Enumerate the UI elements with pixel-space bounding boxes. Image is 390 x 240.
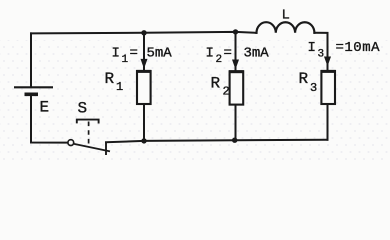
svg-text:3: 3 — [318, 49, 325, 61]
wire R1 branch shaft from top node down to resistor — [143, 33, 145, 71]
svg-text:R: R — [211, 75, 221, 93]
svg-text:=: = — [130, 46, 138, 62]
current arrow I1 (down) — [141, 59, 148, 69]
svg-text:I: I — [112, 46, 120, 62]
node dot top of R2 branch — [233, 29, 238, 34]
svg-text:I: I — [308, 40, 316, 56]
svg-text:1: 1 — [116, 80, 123, 94]
node dot top of R1 branch — [141, 30, 146, 35]
svg-text:I: I — [206, 46, 214, 62]
switch S fixed contact tick — [105, 142, 107, 155]
battery E negative short thick plate — [25, 93, 39, 97]
current arrow I2 (down) — [232, 60, 239, 70]
node dot bottom of R2 branch — [232, 138, 237, 143]
wire left vertical upper (corner to battery) — [30, 33, 32, 86]
switch S actuator dashed link — [88, 122, 90, 148]
wire R2 branch shaft from top node down to resistor — [235, 32, 237, 71]
resistor R3 body top cap — [321, 70, 336, 73]
resistor R2 body top cap — [229, 70, 244, 73]
svg-text:=10mA: =10mA — [336, 40, 381, 56]
svg-text:=: = — [224, 46, 232, 62]
resistor R1 body top cap — [136, 70, 151, 73]
svg-text:2: 2 — [216, 54, 223, 66]
svg-text:E: E — [40, 99, 50, 117]
resistor R1 body — [137, 71, 151, 104]
svg-text:R: R — [105, 70, 115, 88]
node dot bottom of R1 branch — [141, 138, 146, 143]
battery E positive long plate — [14, 86, 53, 88]
current arrow I3 (down) — [324, 57, 331, 67]
svg-text:3mA: 3mA — [244, 46, 270, 62]
wire bottom from switch contact through R1,R2 to bottom-right corner — [106, 140, 328, 143]
svg-text:S: S — [78, 100, 88, 118]
wire R1 resistor bottom to bottom wire — [143, 104, 145, 141]
wire inductor to top-right corner and down to R3 branch — [314, 33, 327, 71]
wire R3 resistor bottom to bottom-right corner — [327, 104, 329, 140]
svg-text:1: 1 — [122, 54, 129, 66]
resistor R2 body — [230, 71, 244, 104]
switch S actuator bracket — [77, 120, 99, 124]
resistor R3 body — [321, 71, 335, 104]
svg-text:2: 2 — [223, 85, 230, 99]
svg-text:5mA: 5mA — [147, 46, 173, 62]
wire left vertical lower and bottom-left segment to switch circle — [31, 96, 68, 143]
wire top horizontal from left corner to inductor — [31, 32, 257, 34]
switch S open circle contact — [68, 140, 74, 146]
wire R2 resistor bottom to bottom wire — [235, 105, 237, 141]
switch S blade (diagonal arm) — [74, 144, 110, 152]
inductor L coil (3 humps) — [257, 22, 315, 33]
svg-text:L: L — [282, 8, 290, 24]
svg-text:3: 3 — [310, 81, 317, 95]
svg-text:R: R — [299, 70, 309, 88]
